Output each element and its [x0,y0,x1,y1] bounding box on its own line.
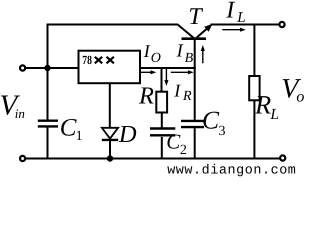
svg-text:L: L [269,106,279,123]
svg-text:I: I [143,41,151,61]
svg-text:D: D [118,121,137,148]
arrow I_R (down, beside wire) [164,69,168,86]
transistor T collector diagonal with arrow [196,24,212,38]
svg-text:I: I [225,0,235,23]
resistor R box [156,92,167,113]
svg-text:1: 1 [76,129,83,144]
svg-text:B: B [185,51,194,66]
svg-text:R: R [182,89,192,104]
capacitor C3 plates [181,120,204,122]
resistor RL box [249,76,259,100]
node: diode ground junction dot [107,155,113,161]
regulator U1 box 78xx [79,51,141,83]
arrow I_L [222,28,246,32]
wire: C3 to ground rail [194,128,196,158]
svg-text:3: 3 [219,124,226,139]
svg-text:T: T [188,4,203,30]
capacitor C1 plates [38,119,58,121]
terminal: input bottom (left) [20,156,25,161]
arrow I_O [141,70,156,74]
svg-text:I: I [173,81,181,101]
wire: RL branch from top rail [253,25,255,77]
diode D cathode bar [102,139,118,141]
wire: RL to ground rail [253,100,255,158]
svg-text:78: 78 [82,53,92,67]
svg-text:R: R [254,90,271,120]
svg-text:O: O [151,51,161,66]
wire: collector rail to output terminal [211,24,280,26]
svg-text:o: o [296,89,304,106]
transistor T base bar [182,37,207,40]
x mark 1 [95,57,102,64]
x mark 2 [107,57,114,64]
wire: top rail emitter side [47,24,179,26]
wire: diode to ground rail [109,140,111,159]
svg-text:C: C [60,115,77,142]
svg-text:C: C [202,105,220,134]
wire: base lead / C3 branch vertical [194,39,196,120]
arrow I_B vertical (up, beside base lead) [201,45,205,63]
svg-text:L: L [236,10,245,26]
wire: C1 branch upper [47,68,49,120]
wire: R bottom to C2 [161,113,163,130]
wire: 78xx ground pin down to diode [109,83,111,127]
terminal: input top (left) [20,65,25,70]
arrow I_B horizontal [171,70,194,74]
wire: C2 to ground rail [161,137,163,159]
diode D triangle [102,128,118,139]
terminal: output top (right) [279,22,284,27]
svg-text:www.diangon.com: www.diangon.com [167,163,296,178]
node: input junction dot [44,65,50,71]
wire: bottom ground rail [25,158,281,160]
wire: R branch from rail to resistor [161,68,163,92]
svg-text:R: R [138,82,154,109]
terminal: output bottom (right) [280,155,285,160]
wire: left vertical from top rail to input junction [47,24,49,69]
svg-text:in: in [15,106,25,121]
wire: output rail of regulator [140,67,196,69]
wire: C1 branch lower [47,128,49,160]
transistor T emitter diagonal [178,25,194,39]
svg-text:2: 2 [180,143,187,158]
wire: input lead from terminal to 78xx box [25,67,79,69]
capacitor C2 plates [150,127,175,129]
svg-text:I: I [176,41,184,61]
